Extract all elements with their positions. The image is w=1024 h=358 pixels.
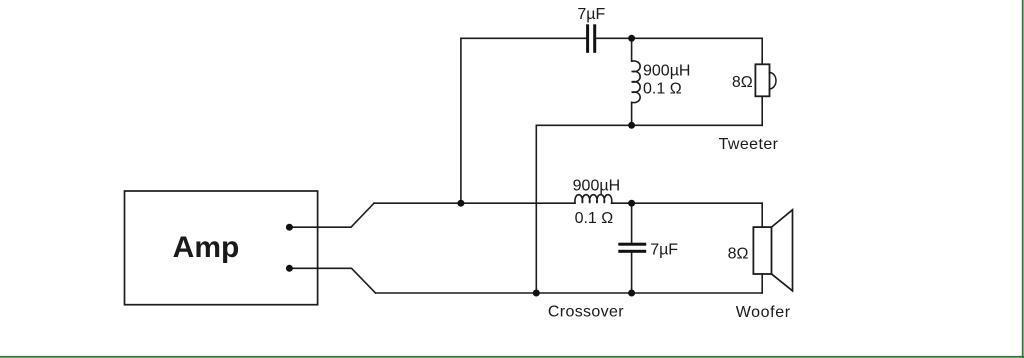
wire after woofer coil to corner: [614, 202, 763, 204]
wire amp top terminal to diagonal: [289, 203, 374, 227]
tweeter dome: [770, 73, 776, 89]
svg-text:0.1 Ω: 0.1 Ω: [575, 210, 614, 227]
wire woofer speaker to bottom rail: [761, 274, 763, 293]
svg-text:Amp: Amp: [173, 231, 240, 264]
wire woofer bottom rail: [376, 292, 762, 294]
woofer cone: [772, 210, 793, 291]
wire left vertical feed to tweeter: [460, 38, 462, 203]
svg-text:8Ω: 8Ω: [728, 246, 749, 263]
wire tweeter right drop: [761, 38, 763, 64]
junction dots: [286, 35, 635, 297]
svg-text:7µF: 7µF: [650, 241, 678, 258]
svg-text:Crossover: Crossover: [548, 304, 624, 321]
node tweeter inductor bottom: [628, 122, 635, 129]
wire woofer right drop: [761, 203, 763, 227]
svg-text:Tweeter: Tweeter: [719, 136, 779, 153]
node tweeter return junction: [533, 290, 540, 297]
wire woofer top rail: [374, 202, 574, 204]
svg-text:0.1 Ω: 0.1 Ω: [643, 81, 682, 98]
node amp - terminal: [286, 265, 293, 272]
tweeter speaker rect: [755, 64, 769, 96]
node woofer cap bottom: [628, 290, 635, 297]
wire tweeter top rail left of cap: [461, 37, 586, 39]
node amp + terminal: [286, 224, 293, 231]
wire amp bottom terminal to diagonal: [289, 268, 375, 293]
wire tweeter bottom rail: [536, 124, 762, 126]
svg-text:8Ω: 8Ω: [732, 74, 753, 91]
wire tweeter return vertical: [535, 125, 537, 293]
woofer speaker rect: [753, 227, 771, 274]
svg-text:900µH: 900µH: [643, 62, 690, 79]
svg-text:900µH: 900µH: [573, 177, 620, 194]
inductor L1 900uH vertical (tweeter): [632, 38, 641, 125]
node left feed junction: [457, 200, 464, 207]
svg-text:7µF: 7µF: [577, 6, 605, 23]
node tweeter cap/inductor top: [628, 35, 635, 42]
amp box: [125, 191, 318, 305]
svg-text:Woofer: Woofer: [736, 304, 791, 321]
capacitor C1 7uF plates: [586, 24, 646, 253]
page border bottom: [0, 356, 1024, 358]
inductor L2 900uH horizontal (woofer): [574, 195, 614, 203]
wire tweeter speaker to bottom rail: [761, 96, 763, 125]
capacitor C2 7uF plates: [618, 243, 646, 246]
page border right: [1022, 0, 1024, 358]
capacitor C2 7uF vertical leads: [631, 203, 633, 242]
node woofer coil/cap top: [628, 200, 635, 207]
wire tweeter top rail right of cap: [596, 37, 762, 39]
